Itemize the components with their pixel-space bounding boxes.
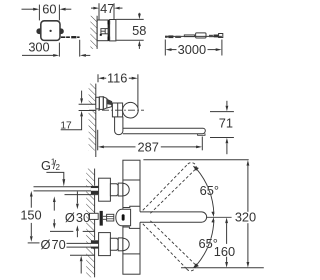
sensor connector box at wall	[90, 213, 99, 219]
dim 17 upper arrow	[80, 91, 83, 104]
wall line (front view)	[94, 169, 96, 278]
bottom supply pipe	[86, 244, 91, 247]
top union	[110, 184, 118, 196]
dim 320 top extension line	[143, 159, 248, 161]
svg-text:2: 2	[56, 163, 61, 172]
dim 320 line with arrows	[247, 160, 250, 268]
cable from control box	[61, 36, 80, 38]
dim 287 right arrow	[161, 146, 202, 149]
dim 3000 right arrow	[208, 48, 222, 51]
sensor D-shape	[116, 209, 131, 226]
cable inline barrel	[196, 33, 206, 38]
top escutcheon	[99, 178, 111, 201]
drop pipe with rounded bottom	[115, 117, 123, 135]
bottom union	[110, 238, 118, 250]
control box right tab	[60, 28, 64, 34]
wall hatching (front view)	[86, 169, 94, 278]
spout rounded tip	[202, 212, 207, 222]
top wall bolt	[91, 186, 99, 194]
svg-text:320: 320	[235, 210, 256, 225]
faucet round face (side)	[123, 102, 139, 118]
upper arc bottom arrowhead	[211, 212, 214, 218]
wall line	[96, 16, 98, 49]
dim 300 extension line at box edge	[58, 43, 60, 57]
dim 58 top arrow	[138, 13, 141, 19]
faucet column right edge segments	[139, 180, 141, 254]
faucet body inner line	[117, 103, 119, 117]
sensor connector plate	[100, 211, 103, 226]
dim 58 bottom extension line	[116, 39, 144, 41]
power box screw dark square	[100, 34, 102, 36]
dim 300 outside arrow pointing left	[80, 54, 90, 57]
dim O30 bottom arrow	[76, 225, 79, 237]
power box flange part	[97, 20, 108, 41]
faucet column left edge segments	[122, 180, 124, 254]
svg-text:47: 47	[100, 1, 114, 16]
dim 300 extension line at cable end	[79, 40, 81, 57]
dim 150 top arrow	[30, 191, 33, 208]
extension line below top pipe	[65, 194, 99, 196]
dim 71 bottom arrow	[226, 138, 229, 155]
dim 3000 extension lines	[165, 40, 222, 56]
dim 60 left arrow	[22, 8, 40, 11]
svg-text:71: 71	[219, 115, 233, 130]
svg-text:G: G	[41, 158, 51, 173]
lower arc top arrowhead	[211, 217, 214, 223]
spout (plan) top and bottom lines	[140, 212, 202, 222]
sensor dark window	[122, 214, 125, 220]
faucet column top section	[123, 160, 140, 180]
dashed swivel spout up	[143, 163, 196, 214]
dim 60 extension lines	[39, 5, 59, 21]
cable left connector	[165, 36, 168, 38]
dim 150 bottom arrow	[30, 223, 33, 242]
svg-text:3000: 3000	[178, 42, 206, 57]
top ring	[118, 183, 123, 196]
power box divider nubs	[108, 21, 111, 25]
unnamed pair down arrow	[53, 219, 56, 229]
lower arc bottom arrowhead	[193, 263, 199, 268]
control box	[41, 21, 60, 41]
upper 65deg arc	[197, 169, 214, 214]
bottom dome	[123, 238, 129, 250]
lower 65deg arc	[197, 220, 214, 265]
svg-text:65°: 65°	[200, 183, 219, 198]
escutcheon bottom extension line	[70, 254, 95, 256]
svg-text:150: 150	[20, 208, 41, 223]
bottom wall bolt	[91, 240, 99, 248]
dim 17 lower arrow and leader	[61, 111, 83, 130]
union fitting at wall	[99, 97, 107, 110]
sensor escutcheon extension line	[50, 230, 95, 232]
control box left tab	[36, 28, 40, 34]
spout outlet nub	[198, 133, 205, 135]
dim 116 right arrow	[129, 77, 138, 80]
svg-text:300: 300	[28, 40, 49, 55]
dim 287 extension lines	[98, 130, 203, 151]
faucet column bottom section	[123, 254, 140, 274]
bottom escutcheon	[99, 233, 111, 256]
dim 160 line with arrows	[225, 218, 228, 268]
wall hatching	[90, 16, 97, 49]
faucet column section lines with jog	[123, 206, 140, 228]
dashed swivel spout down	[143, 221, 196, 271]
top supply pipe	[86, 187, 91, 190]
dim 47 extension lines	[99, 3, 114, 20]
svg-text:287: 287	[138, 140, 159, 155]
upper arc top arrowhead	[193, 166, 199, 171]
G 1/2 label	[41, 157, 61, 173]
spout centerline extension	[207, 216, 232, 218]
cable right end plug	[219, 34, 223, 38]
svg-text:116: 116	[107, 70, 127, 85]
dim 150 bottom extension line	[28, 242, 40, 244]
svg-text:Ø 70: Ø 70	[40, 237, 65, 252]
centerline dash-dot	[89, 109, 144, 111]
sensor connector plug	[107, 214, 114, 221]
dim 116 left arrow	[98, 77, 106, 80]
sensor connector link lines	[103, 216, 107, 219]
fitting dark cone	[107, 99, 112, 108]
wall line (side view)	[95, 84, 97, 157]
faucet body (side)	[112, 103, 122, 117]
dim 60 right arrow	[60, 8, 72, 11]
dim 58 top extension line	[116, 18, 144, 20]
unnamed pair up arrow	[53, 196, 56, 210]
G 1/2 leader with arrow	[46, 172, 65, 186]
wall hatching (side view)	[89, 84, 96, 151]
cable right connector	[209, 35, 213, 37]
power box divider bar	[108, 20, 110, 41]
dim 3000 left arrow	[166, 48, 177, 51]
dim 116 extension lines	[98, 74, 138, 109]
power box outer part	[110, 20, 116, 41]
dim O30 top arrow	[76, 192, 79, 210]
bottom ring	[118, 238, 123, 251]
control box center dot	[49, 30, 51, 32]
svg-text:Ø 30: Ø 30	[65, 210, 90, 225]
supply pipe stub	[89, 105, 96, 110]
cable sleeve rectangle	[184, 35, 194, 37]
svg-text:58: 58	[132, 23, 146, 38]
svg-text:160: 160	[214, 244, 235, 259]
dim 287 left arrow	[98, 146, 136, 149]
union fitting wall escutcheon	[96, 97, 100, 109]
power box screw detail	[101, 29, 109, 34]
cable left connector second segment	[175, 36, 181, 38]
O70 bottom arrow	[80, 256, 83, 274]
spout bar (side)	[123, 128, 205, 134]
svg-text:60: 60	[42, 2, 56, 17]
dim 71 top arrow	[226, 101, 229, 112]
bottom extension line	[181, 267, 264, 269]
dim 300 line and right-pointing arrow	[22, 54, 59, 57]
cable line	[165, 35, 222, 37]
svg-text:17: 17	[60, 120, 72, 131]
dim 71 extension lines	[210, 112, 234, 138]
dim 47 right arrow	[114, 7, 122, 10]
dim 47 left arrow	[91, 7, 99, 10]
dim 58 bottom arrow	[138, 41, 141, 49]
top dome	[123, 183, 129, 195]
